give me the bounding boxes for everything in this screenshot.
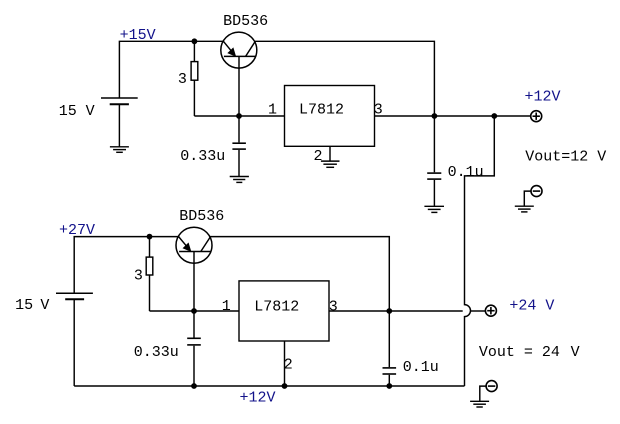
svg-text:0.33u: 0.33u xyxy=(134,344,179,361)
wire U1 pin 3 to +12V terminal xyxy=(375,115,532,117)
wire Q1 collector to output node xyxy=(255,41,435,116)
terminal +12V (plus) xyxy=(531,111,542,122)
terminal minus (bottom) xyxy=(480,381,497,401)
ground below battery B1 xyxy=(110,147,129,153)
svg-text:+12V: +12V xyxy=(240,390,276,407)
junction C3 at bottom rail xyxy=(191,383,197,389)
wire node B to U2 pin 1 xyxy=(194,310,239,312)
capacitor C4 0.1u xyxy=(383,311,397,386)
svg-text:1: 1 xyxy=(222,298,231,315)
svg-text:Vout=12 V: Vout=12 V xyxy=(525,149,606,166)
ground below C1 xyxy=(230,177,249,183)
bottom rail (+12V net) xyxy=(74,385,464,387)
wire U1 pin 2 to ground xyxy=(329,146,331,161)
svg-text:3: 3 xyxy=(178,71,187,88)
svg-text:0.1u: 0.1u xyxy=(403,359,439,376)
wire node A to U1 pin 1 xyxy=(239,115,285,117)
wire +12V node down and across to bottom rail (with hop) xyxy=(465,116,495,386)
battery B1 xyxy=(101,98,138,104)
wire Q2 base to node B xyxy=(193,252,195,312)
terminal +24V (plus) xyxy=(485,305,496,316)
wire battery B1 negative to ground xyxy=(118,104,120,146)
capacitor C1 0.33u xyxy=(232,116,246,176)
label Vout = 24 V xyxy=(479,344,580,361)
wire R2 bottom to node B xyxy=(150,310,195,312)
wire U2 pin 3 to +24V terminal (passes under hop) xyxy=(329,310,486,312)
svg-text:V: V xyxy=(571,344,580,361)
transistor Q1 BD536 xyxy=(221,32,257,68)
ground at minus terminal (bottom) xyxy=(470,401,489,407)
junction at +12V takeoff xyxy=(491,113,497,119)
wire battery B2 negative to bottom rail xyxy=(73,299,75,386)
svg-text:0.1u: 0.1u xyxy=(448,164,484,181)
ground below C2 xyxy=(424,206,444,212)
wire Q1 base to node A xyxy=(238,56,240,116)
svg-text:Vout = 24: Vout = 24 xyxy=(479,344,560,361)
wire U2 pin 2 to bottom rail xyxy=(284,341,286,386)
regulator U1 L7812 xyxy=(285,86,375,147)
svg-text:0.33u: 0.33u xyxy=(180,148,225,165)
svg-text:L7812: L7812 xyxy=(299,101,344,118)
battery B2 xyxy=(56,293,93,299)
svg-text:BD536: BD536 xyxy=(223,13,268,30)
svg-text:3: 3 xyxy=(134,267,143,284)
label 15 V (B2) xyxy=(15,297,49,314)
svg-text:2: 2 xyxy=(314,148,323,165)
junction C4 at bottom rail xyxy=(386,383,392,389)
svg-text:3: 3 xyxy=(329,298,338,315)
svg-text:15: 15 xyxy=(59,103,77,120)
svg-text:+24 V: +24 V xyxy=(509,298,554,315)
capacitor C2 0.1u xyxy=(427,116,441,206)
wire R1 bottom to node A xyxy=(194,115,239,117)
regulator U2 L7812 xyxy=(239,281,329,341)
svg-text:V: V xyxy=(40,297,49,314)
resistor R2 (3 ohm) xyxy=(146,237,153,311)
junction at output node (C2/collector) xyxy=(432,113,438,119)
junction on +15V rail at R1 xyxy=(192,38,198,44)
ground at U1 pin 2 xyxy=(321,161,340,167)
junction U2 pin2 at bottom rail xyxy=(282,383,288,389)
ground at minus terminal (top) xyxy=(515,206,534,212)
svg-text:+12V: +12V xyxy=(525,89,561,106)
junction node +24V at C4 xyxy=(386,308,392,314)
svg-text:BD536: BD536 xyxy=(179,208,224,225)
wire Q2 collector to +24V node xyxy=(210,237,389,311)
label 15 V (B1) xyxy=(59,103,95,120)
junction node B (base/R2/C3/U2 pin1) xyxy=(191,308,197,314)
transistor Q2 BD536 xyxy=(176,227,212,263)
capacitor C3 0.33u xyxy=(187,311,201,386)
terminal minus (top) xyxy=(524,186,542,206)
svg-text:V: V xyxy=(86,103,95,120)
wire battery B2 positive to +27V rail xyxy=(74,237,178,294)
junction on +27V rail at R2 xyxy=(147,234,153,240)
svg-text:15: 15 xyxy=(15,297,33,314)
svg-text:1: 1 xyxy=(268,101,277,118)
svg-text:L7812: L7812 xyxy=(254,298,299,315)
junction node A (base/R1/C1/U1 pin1) xyxy=(236,113,242,119)
wire battery B1 positive to +15V rail xyxy=(119,41,223,98)
resistor R1 (3 ohm) xyxy=(191,41,198,116)
